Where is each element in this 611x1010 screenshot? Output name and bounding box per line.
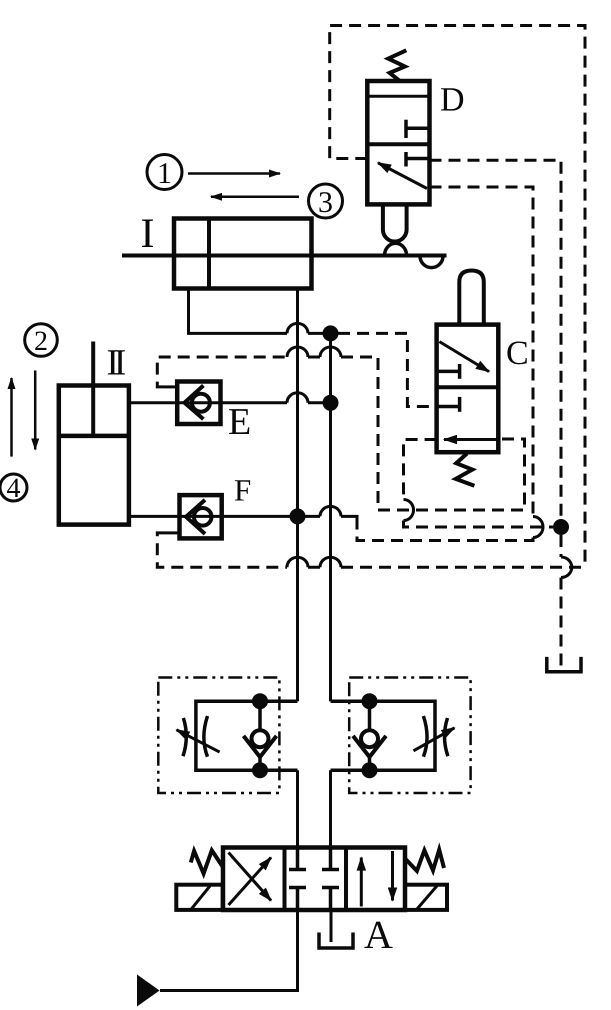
flow control left: dash-dot enclosure <box>158 678 279 794</box>
cylinder I piston <box>207 219 211 289</box>
valve A body <box>223 848 405 911</box>
supply triangle <box>137 975 160 1007</box>
E pilot stub <box>164 385 177 388</box>
valve D flow arrow <box>378 163 427 189</box>
dashed F pilot line via far right to valve D <box>157 533 585 567</box>
valve A right solenoid <box>405 885 447 910</box>
svg-text:F: F <box>234 473 251 508</box>
throttle right <box>423 716 448 757</box>
node 3 circled <box>309 184 343 218</box>
cylinder II rod <box>91 342 95 436</box>
F output line <box>341 516 357 523</box>
valve C body <box>437 325 499 453</box>
valve A left box crossed arrows <box>229 858 272 906</box>
node 4 circled <box>0 474 27 501</box>
main vertical right <box>329 333 332 701</box>
dashed pilot rect from valve D left port to top to far right <box>330 26 585 568</box>
svg-text:C: C <box>506 335 529 372</box>
svg-text:2: 2 <box>34 326 48 357</box>
node 2 circled <box>25 324 58 357</box>
svg-text:A: A <box>364 912 393 957</box>
hop of x533 over y527 <box>533 517 543 538</box>
valve D right port 1 dashed down to junction <box>430 160 562 519</box>
svg-text:3: 3 <box>318 186 333 219</box>
valve D bottom box blocked port T <box>406 157 430 161</box>
valve D roller bump on rod <box>385 243 407 255</box>
arrow stroke 3 (left) <box>211 196 299 199</box>
supply line to triangle <box>160 910 298 991</box>
cam half-circle under rod <box>420 256 443 268</box>
arrow stroke 1 (right) <box>188 172 280 175</box>
flow control left loop <box>196 701 298 770</box>
hops on y357 <box>287 347 341 357</box>
dashed below dot to exhaust <box>560 535 563 668</box>
F pilot stub <box>166 531 180 534</box>
check valve F box <box>180 495 222 538</box>
junction dot right <box>553 519 569 535</box>
arrow stroke 2 (up) <box>10 378 13 457</box>
valve D top box blocked port T <box>406 127 430 131</box>
valve A left solenoid <box>176 885 222 910</box>
valve D body <box>367 81 429 204</box>
valve C pin <box>459 271 484 325</box>
svg-text:4: 4 <box>7 473 21 504</box>
valve D right port 2 dashed to F output <box>357 187 533 541</box>
exhaust bracket right <box>547 657 581 672</box>
E output line <box>308 401 331 404</box>
cylinder II body <box>59 386 129 525</box>
svg-text:II: II <box>107 343 126 384</box>
check valve branch right <box>362 693 378 709</box>
valve C bottom box left flow arrow <box>444 438 498 441</box>
svg-text:1: 1 <box>157 157 172 190</box>
node 1 circled <box>147 155 182 190</box>
cylinder I left port line <box>189 289 331 334</box>
valve C bottom box blocked T <box>437 405 460 409</box>
valve C spring <box>456 454 475 486</box>
svg-text:I: I <box>141 211 155 257</box>
check valve E box <box>177 382 220 425</box>
check valve branch left <box>252 693 268 709</box>
dashed E pilot line to valve C right port <box>157 357 524 510</box>
flow control right loop <box>331 701 436 770</box>
arrow stroke 4 (down) <box>34 371 37 450</box>
valve A right spring <box>405 850 444 871</box>
cylinder I piston rod line <box>122 254 447 258</box>
junction dot E <box>323 395 339 411</box>
svg-text:D: D <box>440 82 465 119</box>
junction dot top <box>323 325 339 341</box>
valve C top box flow arrow <box>439 342 489 372</box>
dashed from valve C bottom-left port down to right junction <box>404 440 554 528</box>
junction dot F <box>290 508 306 524</box>
flow control right: dash-dot enclosure <box>349 678 470 794</box>
lines from flow controls to valve A <box>296 770 299 848</box>
throttle left <box>183 716 208 757</box>
svg-text:E: E <box>228 401 251 443</box>
main vertical left <box>296 289 299 702</box>
dashed pilot from top junction to valve C middle-left port <box>338 333 437 406</box>
valve A middle box blocked ports <box>289 848 339 870</box>
valve A left spring <box>191 850 223 873</box>
valve A right box arrows <box>360 858 363 907</box>
hop of x403.5 over y510 <box>404 500 414 521</box>
valve D plunger <box>383 204 407 241</box>
hop of x561 over y567 <box>561 557 572 578</box>
cylinder II upper port line <box>129 401 287 404</box>
hops on y567 <box>287 557 341 567</box>
valve C top box blocked T <box>437 370 460 374</box>
cylinder II lower port line <box>129 515 320 518</box>
cylinder I body <box>174 219 312 289</box>
valve D spring <box>388 50 406 80</box>
exhaust below valve A <box>330 910 333 942</box>
